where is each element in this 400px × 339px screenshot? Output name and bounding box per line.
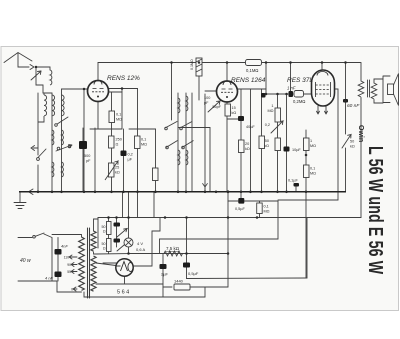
svg-text:0,1: 0,1	[116, 113, 121, 117]
svg-text:0,1: 0,1	[310, 167, 315, 171]
svg-text:1 nF: 1 nF	[287, 86, 296, 91]
svg-text:0,5µF: 0,5µF	[235, 207, 245, 211]
svg-text:40µF: 40µF	[246, 125, 255, 129]
svg-text:kΩ: kΩ	[245, 147, 250, 151]
svg-text:10µF: 10µF	[292, 148, 301, 152]
svg-text:1440: 1440	[174, 279, 184, 284]
svg-text:MΩ: MΩ	[310, 172, 316, 176]
svg-text:2µF: 2µF	[161, 272, 169, 277]
svg-text:kΩ: kΩ	[232, 111, 237, 115]
svg-text:0,2MΩ: 0,2MΩ	[293, 99, 305, 104]
svg-text:0,1µF: 0,1µF	[288, 179, 298, 183]
svg-text:110: 110	[64, 256, 70, 260]
svg-text:55: 55	[67, 270, 71, 274]
svg-text:250: 250	[116, 138, 122, 142]
svg-text:0,1: 0,1	[141, 138, 146, 142]
svg-text:1: 1	[310, 139, 312, 143]
svg-text:0,6 A: 0,6 A	[136, 247, 145, 252]
svg-text:pF: pF	[86, 159, 91, 163]
svg-text:kΩ: kΩ	[115, 171, 120, 175]
svg-text:0,2: 0,2	[265, 123, 270, 127]
svg-text:Ω: Ω	[103, 247, 106, 251]
svg-text:MΩ: MΩ	[264, 210, 270, 214]
svg-text:Owin: Owin	[357, 125, 364, 142]
svg-text:MΩ: MΩ	[116, 118, 122, 122]
svg-text:15: 15	[232, 106, 236, 110]
svg-text:4nF: 4nF	[61, 244, 68, 249]
svg-text:20: 20	[245, 142, 249, 146]
svg-text:kΩ: kΩ	[350, 145, 355, 149]
svg-text:1: 1	[271, 104, 273, 108]
svg-text:RENS 12%: RENS 12%	[107, 75, 140, 82]
svg-text:Ω: Ω	[116, 143, 119, 147]
svg-text:pF: pF	[204, 101, 209, 105]
svg-text:60 nF: 60 nF	[347, 103, 360, 109]
svg-text:4 nF: 4 nF	[45, 276, 54, 281]
svg-text:kΩ: kΩ	[264, 144, 269, 148]
svg-text:0,1: 0,1	[264, 205, 269, 209]
svg-text:L 56 W und E 56 W: L 56 W und E 56 W	[364, 146, 387, 275]
svg-text:RES 37L: RES 37L	[287, 77, 313, 84]
svg-text:µF: µF	[128, 158, 133, 162]
svg-text:40 w: 40 w	[20, 258, 31, 264]
svg-text:50: 50	[102, 242, 106, 246]
svg-text:25: 25	[115, 166, 119, 170]
svg-text:MΩ: MΩ	[141, 143, 147, 147]
svg-text:90: 90	[67, 263, 71, 267]
svg-text:500: 500	[84, 154, 90, 158]
svg-text:5 6 4: 5 6 4	[117, 290, 129, 296]
svg-text:100: 100	[204, 96, 210, 100]
svg-text:0,5µF: 0,5µF	[188, 271, 199, 276]
svg-text:50: 50	[350, 140, 354, 144]
svg-text:56pF: 56pF	[212, 105, 221, 109]
svg-text:MΩ: MΩ	[267, 109, 273, 113]
svg-text:0,1MΩ: 0,1MΩ	[246, 68, 258, 73]
svg-text:0,2: 0,2	[128, 153, 133, 157]
svg-text:50: 50	[265, 139, 269, 143]
svg-text:0: 0	[71, 288, 73, 292]
svg-text:4 V: 4 V	[137, 241, 143, 246]
svg-text:Ω: Ω	[103, 230, 106, 234]
svg-text:50: 50	[102, 225, 106, 229]
svg-text:7,5 kΩ: 7,5 kΩ	[166, 246, 180, 251]
svg-text:0,1MΩ: 0,1MΩ	[190, 59, 194, 70]
svg-text:MΩ: MΩ	[310, 144, 316, 148]
svg-text:RENS 1264: RENS 1264	[231, 77, 266, 84]
